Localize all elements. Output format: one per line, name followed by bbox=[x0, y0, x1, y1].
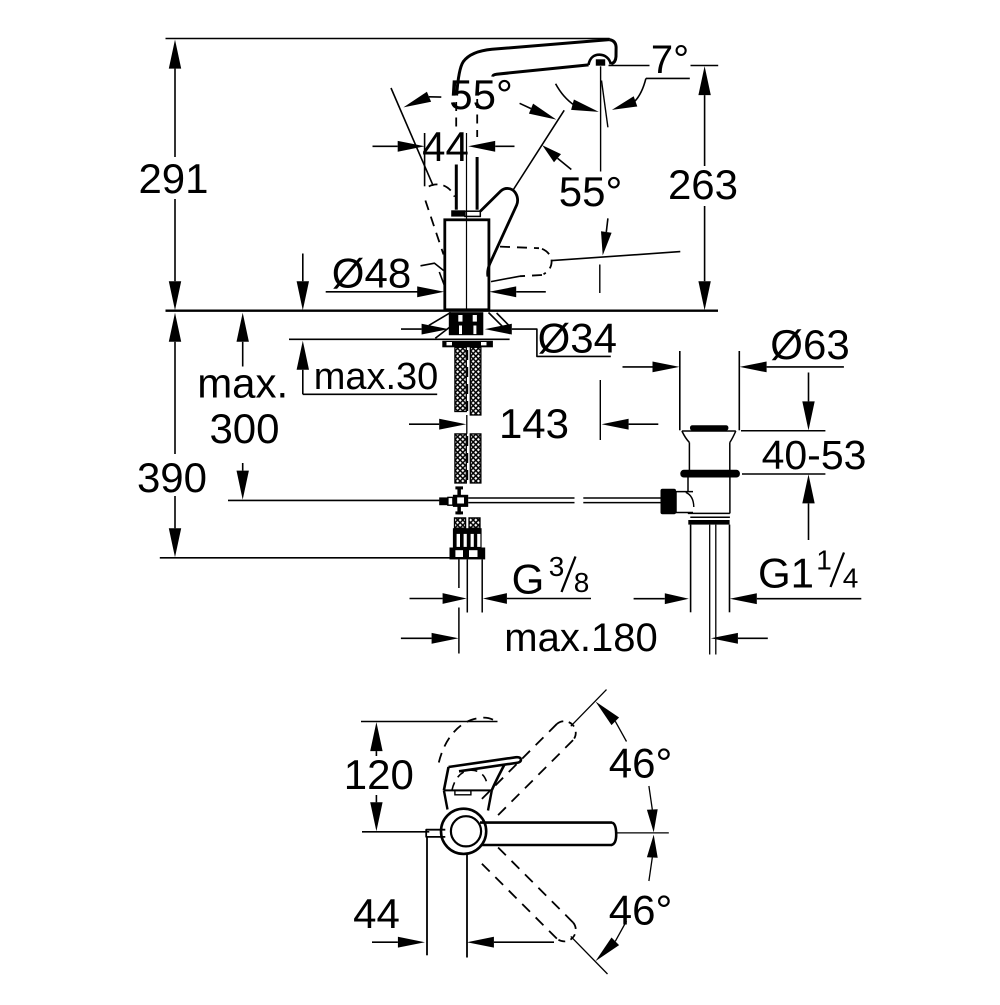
deck hatch left 2 bbox=[435, 326, 451, 338]
mounting nut notch 2 bbox=[481, 342, 487, 345]
bv body mid line bbox=[444, 789, 492, 791]
drain body upper left bbox=[688, 443, 690, 471]
svg-text:46°: 46° bbox=[609, 740, 673, 787]
svg-text:263: 263 bbox=[668, 161, 738, 208]
dimension 291 vertical line with arrows bbox=[169, 40, 181, 69]
svg-text:143: 143 bbox=[499, 400, 569, 447]
bv lever dashed arc bbox=[439, 718, 498, 763]
drain rod knob bbox=[661, 489, 677, 515]
bv spout bottom edge bbox=[481, 844, 612, 847]
dimension 40-53 extension top bbox=[741, 430, 825, 432]
aerator level extension line bbox=[609, 65, 650, 67]
drain neck left bbox=[682, 431, 690, 443]
lever-up axis line bbox=[513, 110, 564, 190]
dimension 44 extension line bbox=[424, 133, 426, 186]
bv lever plate bbox=[449, 757, 521, 771]
dimension 143 arrows bbox=[439, 419, 466, 430]
bv spout end cap bbox=[612, 823, 617, 845]
aerator axis extension segments bbox=[599, 265, 601, 294]
dimension 44 arrows bbox=[398, 141, 425, 152]
dimension Ø48 arrows bbox=[326, 291, 419, 293]
bv 120 extension top bbox=[361, 721, 498, 723]
cartridge collar black part bbox=[451, 210, 465, 216]
pull rod in shank bbox=[467, 350, 469, 412]
7 degree arc left with arrow bbox=[556, 84, 575, 106]
dimension max180 arrows bbox=[432, 633, 459, 644]
dimension 40-53 arrows bbox=[802, 401, 814, 430]
rod joint outline bbox=[448, 497, 453, 505]
bv pivot outer circle bbox=[441, 809, 486, 854]
hose coupling slot 3 bbox=[471, 534, 474, 547]
dimension 40-53 extension bottom bbox=[742, 473, 825, 475]
bv 120 extension bottom bbox=[362, 831, 429, 833]
bv shank left line bbox=[426, 837, 428, 955]
cartridge collar outlined part bbox=[465, 211, 480, 216]
shank block slot 4 bbox=[473, 326, 476, 335]
7 degree arc right with arrow bbox=[634, 78, 646, 101]
55 right arrow lower bbox=[601, 231, 612, 255]
lever-left dashed edge bbox=[425, 201, 443, 255]
drain neck right bbox=[730, 431, 736, 443]
bv body left edge bbox=[444, 767, 449, 790]
bv dimension 44 arrows bbox=[398, 937, 425, 948]
hose coupling block bbox=[453, 528, 482, 547]
threaded shank section 2 left bbox=[455, 434, 466, 483]
drain inner tube right bbox=[715, 525, 717, 655]
drain tailpipe left bbox=[690, 525, 692, 613]
deck hatch right 1 bbox=[489, 313, 510, 334]
bv body lower left edge bbox=[444, 790, 448, 809]
pull rod top cap bbox=[455, 486, 463, 489]
dimension max300 vertical line with arrows bbox=[237, 313, 249, 342]
threaded shank section 3 right bbox=[469, 518, 480, 528]
pull rod vertical bar bbox=[457, 487, 461, 515]
shank block slot 1 bbox=[458, 315, 462, 322]
svg-text:40-53: 40-53 bbox=[762, 432, 867, 478]
hose nut window 1 bbox=[455, 550, 463, 557]
bv spout dashed up edge 1 bbox=[482, 724, 557, 799]
deck hatch left 1 bbox=[429, 312, 451, 325]
spout bottom edge bbox=[493, 65, 589, 77]
lever-left axis line bbox=[391, 88, 433, 186]
drain o-ring band bbox=[680, 470, 740, 478]
hose coupling slot 2 bbox=[464, 534, 467, 547]
Ø48 leader hook bbox=[421, 263, 444, 270]
drain lever boss bbox=[676, 492, 693, 513]
Ø34 leader elbow bbox=[512, 329, 611, 356]
threaded shank section 3 left bbox=[455, 518, 466, 528]
top extension line (spout top level) bbox=[166, 38, 610, 40]
hose coupling slot 1 bbox=[457, 534, 460, 547]
pop-up rod segment 1 bbox=[468, 497, 574, 499]
bv spout down axis extension bbox=[571, 936, 608, 974]
hose coupling slot 4 bbox=[477, 534, 480, 547]
drain body lower right bbox=[729, 478, 731, 514]
drain flange top bbox=[682, 430, 736, 432]
faucet centerline bbox=[466, 133, 468, 309]
bv spout dashed up cap bbox=[557, 721, 576, 740]
bv tab bbox=[426, 830, 445, 837]
svg-text:4: 4 bbox=[843, 563, 859, 594]
bv horizontal reference line bbox=[617, 832, 669, 834]
counter/deck top line bbox=[166, 310, 719, 312]
svg-text:44: 44 bbox=[422, 123, 469, 170]
bv body right edge bbox=[492, 765, 505, 791]
bv 46 upper arc arrow bbox=[615, 721, 626, 741]
lever solid bbox=[480, 188, 517, 276]
7 degree leader line bbox=[646, 77, 690, 79]
max30 leader underline bbox=[303, 393, 437, 395]
bv body notch bbox=[455, 790, 471, 794]
dimension Ø63 arrows bbox=[653, 362, 680, 373]
bv spout dashed down edge 1 bbox=[482, 864, 557, 939]
drain coupling line bbox=[690, 516, 730, 518]
lever-down dashed bottom edge bbox=[520, 275, 542, 276]
bv shank right line bbox=[466, 854, 468, 958]
lever-down axis line bbox=[552, 252, 680, 261]
hose nut window 2 bbox=[469, 550, 478, 557]
pull rod lower dashes bbox=[467, 436, 469, 481]
svg-text:300: 300 bbox=[209, 405, 279, 452]
riser right edge dashed part bbox=[476, 99, 478, 137]
spout right end cap bbox=[609, 40, 616, 64]
svg-text:max.: max. bbox=[197, 360, 288, 407]
hose tail left line bbox=[466, 559, 468, 612]
55 right arrow upper bbox=[542, 145, 561, 162]
svg-text:291: 291 bbox=[138, 155, 208, 202]
dimension G1 1/4 arrows bbox=[665, 593, 689, 604]
under-deck shank block bbox=[449, 312, 484, 335]
drain body lower left bbox=[687, 478, 689, 492]
hose tail right line bbox=[481, 559, 483, 612]
svg-text:55°: 55° bbox=[449, 71, 513, 118]
svg-text:46°: 46° bbox=[609, 887, 673, 934]
dimension 390 vertical line with arrows bbox=[169, 313, 181, 342]
aerator vertical axis line bbox=[600, 66, 602, 171]
55 left arrow at lever axis bbox=[529, 104, 557, 120]
hose end bottom line bbox=[160, 557, 451, 559]
bv body hidden dome dashed bbox=[452, 770, 487, 790]
deck bottom line bbox=[289, 338, 510, 340]
drain coupling band bbox=[688, 520, 729, 525]
bv spout top edge bbox=[480, 821, 612, 824]
max180 extension line bbox=[458, 559, 460, 588]
svg-text:55°: 55° bbox=[559, 168, 623, 215]
drain body bottom line bbox=[688, 512, 730, 514]
lever-left dashed cap bbox=[429, 184, 455, 196]
bv 46 lower arc arrow bbox=[615, 921, 626, 941]
pop-up knob bbox=[690, 425, 728, 431]
lever-down dashed top edge bbox=[500, 247, 539, 249]
shank block slot 3 bbox=[459, 326, 462, 335]
rod clevis window bbox=[457, 497, 464, 503]
svg-text:1: 1 bbox=[816, 545, 832, 576]
riser right edge bbox=[476, 157, 479, 210]
svg-text:max.30: max.30 bbox=[314, 356, 439, 398]
dimension Ø34 arrows bbox=[422, 324, 449, 335]
lever-down bottom solid segment bbox=[491, 276, 520, 281]
riser left edge bbox=[455, 165, 458, 210]
svg-text:120: 120 bbox=[344, 751, 414, 798]
svg-text:max.180: max.180 bbox=[504, 616, 657, 660]
lever-down dashed cap bbox=[542, 249, 552, 274]
bv 46 upper horiz arrow bbox=[647, 809, 658, 832]
faucet body bbox=[445, 220, 489, 310]
drain tailpipe right bbox=[729, 525, 731, 613]
drain internal arc bbox=[686, 492, 694, 507]
svg-text:Ø34: Ø34 bbox=[538, 315, 617, 362]
bv dimension 120 arrows bbox=[370, 722, 382, 751]
bv body lower right edge bbox=[488, 790, 492, 810]
bv 46 lower horiz arrow bbox=[647, 835, 658, 858]
drain pipe extension right bbox=[738, 351, 740, 430]
drain body upper right bbox=[729, 443, 731, 471]
hose nut bbox=[450, 548, 486, 560]
dimension G3/8 arrows bbox=[443, 593, 467, 604]
55 left arrow at left line bbox=[403, 92, 431, 108]
svg-text:Ø63: Ø63 bbox=[770, 321, 849, 368]
svg-text:44: 44 bbox=[353, 890, 400, 937]
svg-text:G1: G1 bbox=[758, 550, 814, 597]
rod end cap bbox=[439, 497, 448, 505]
svg-text:G: G bbox=[512, 556, 545, 603]
threaded shank section 1 left bbox=[455, 347, 466, 411]
dimension max30 arrows bbox=[297, 281, 309, 310]
svg-text:3: 3 bbox=[549, 551, 565, 582]
dimension 263 vertical line with arrows bbox=[698, 66, 710, 95]
pop-up rod level line bbox=[228, 499, 439, 501]
bv spout dashed up edge 2 bbox=[498, 740, 573, 815]
threaded shank section 1 right bbox=[470, 347, 481, 415]
aerator tilted axis line bbox=[602, 81, 608, 128]
aerator outlet bbox=[596, 59, 605, 65]
pop-up rod segment 2 bbox=[583, 497, 660, 499]
riser left edge dashed part bbox=[455, 102, 457, 131]
bv pivot inner circle bbox=[451, 816, 481, 846]
drain pipe extension left bbox=[679, 351, 681, 430]
threaded shank section 2 right bbox=[470, 434, 481, 483]
deck hatch right 2 bbox=[497, 313, 511, 327]
shank block slot 2 bbox=[473, 315, 477, 322]
svg-text:Ø48: Ø48 bbox=[332, 250, 411, 297]
aerator dome bbox=[589, 55, 611, 65]
rod clevis block bbox=[453, 495, 468, 507]
pull rod bottom cap bbox=[455, 511, 463, 514]
svg-text:8: 8 bbox=[574, 567, 590, 598]
drain inner tube left bbox=[709, 525, 711, 655]
spout top edge bbox=[457, 40, 610, 96]
mounting nut notch 1 bbox=[447, 342, 453, 345]
bv spout dashed down cap bbox=[557, 923, 576, 942]
mounting nut bbox=[442, 341, 493, 348]
bv spout up axis extension bbox=[571, 690, 607, 727]
svg-text:7°: 7° bbox=[651, 38, 689, 82]
svg-text:390: 390 bbox=[137, 454, 207, 501]
bv spout dashed down edge 2 bbox=[498, 848, 573, 923]
